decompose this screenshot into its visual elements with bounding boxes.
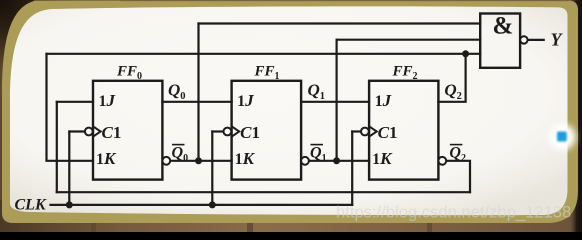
dynamic clock wedge FF1	[232, 126, 240, 136]
wood seam 1	[91, 222, 96, 236]
svg-text:1K: 1K	[235, 149, 256, 168]
wire: clock stub FF0	[69, 130, 85, 132]
wire: clock stub FF2	[352, 130, 361, 132]
overline of QB0	[172, 144, 185, 146]
svg-text:1K: 1K	[372, 149, 393, 168]
dynamic clock wedge FF0	[93, 126, 101, 136]
wire: feedback vertical to J0	[56, 102, 58, 192]
dark top-left corner blob	[0, 0, 140, 120]
flip-flop FF0 box	[93, 81, 162, 180]
junction dot QB1 node	[333, 157, 340, 164]
wire: Q2 output to vertical	[438, 54, 465, 102]
wire: top AND input line from node QB0	[199, 22, 481, 24]
junction dot CLK-FF0	[66, 201, 73, 208]
clock inversion bubble FF0	[85, 128, 93, 136]
junction dot Q2 node	[462, 50, 469, 57]
wood seam 2	[247, 222, 253, 236]
QB2 output bubble	[438, 157, 446, 165]
wire: AND gate output to Y	[528, 39, 544, 41]
svg-text:1J: 1J	[99, 91, 116, 110]
wire: CLK line	[51, 204, 353, 206]
svg-text:1J: 1J	[375, 91, 392, 110]
svg-text:C1: C1	[240, 123, 260, 142]
junction dot QB0 node	[195, 157, 202, 164]
pointer marker glow	[550, 124, 576, 150]
wire: second AND input line from node QB1	[337, 39, 481, 41]
QB1 output bubble	[301, 157, 309, 165]
top thin dark edge line	[120, 0, 568, 1]
QB0 output bubble	[162, 157, 170, 165]
flip-flop FF1 box	[232, 81, 302, 180]
wire: left vertical down to K0 input	[47, 54, 94, 161]
dark right edge	[570, 0, 582, 232]
dynamic clock wedge FF2	[369, 126, 377, 136]
wood texture bottom	[0, 200, 582, 232]
svg-text:&: &	[493, 13, 514, 40]
wire: third AND input line / Q2 to K0 feedback	[47, 53, 481, 55]
clock inversion bubble FF2	[361, 128, 369, 136]
NAND gate U1 box	[480, 14, 520, 68]
svg-text:https://blog.csdn.net/zbp_1213: https://blog.csdn.net/zbp_12138	[336, 203, 571, 222]
svg-text:1J: 1J	[237, 91, 254, 110]
flip-flop FF2 box	[369, 81, 438, 180]
svg-text:1K: 1K	[96, 149, 117, 168]
svg-text:CLK: CLK	[15, 197, 47, 214]
wire: QB0 to K1	[170, 160, 231, 162]
pointer marker (blue square)	[557, 132, 567, 142]
overline of QB1	[311, 144, 324, 146]
wire: QB2 output to feedback corner	[446, 161, 470, 192]
wire: vertical from second line down to QB1 wire	[336, 40, 338, 161]
wood seam 3	[427, 222, 432, 236]
wire: QB1 to K2	[309, 160, 369, 162]
wire: vertical from top line down to QB0 wire	[197, 24, 199, 161]
wire: feedback bottom line QB2 to J0	[57, 191, 470, 193]
wire: Q1 to J2	[301, 101, 369, 103]
svg-text:C1: C1	[378, 123, 398, 142]
wire: clock stub FF1	[212, 130, 223, 132]
wire: clock vertical FF1	[211, 132, 213, 205]
wire: clock vertical FF2 / CLK corner	[351, 132, 353, 205]
svg-text:C1: C1	[102, 123, 122, 142]
clock inversion bubble FF1	[224, 128, 232, 136]
junction dot CLK-FF1	[209, 201, 216, 208]
wire: J0 input from feedback vertical	[57, 101, 93, 103]
NAND output bubble	[520, 36, 527, 43]
overline of QB2	[450, 144, 463, 146]
wire: clock vertical FF0	[68, 132, 70, 205]
wire: Q0 to J1	[162, 101, 231, 103]
